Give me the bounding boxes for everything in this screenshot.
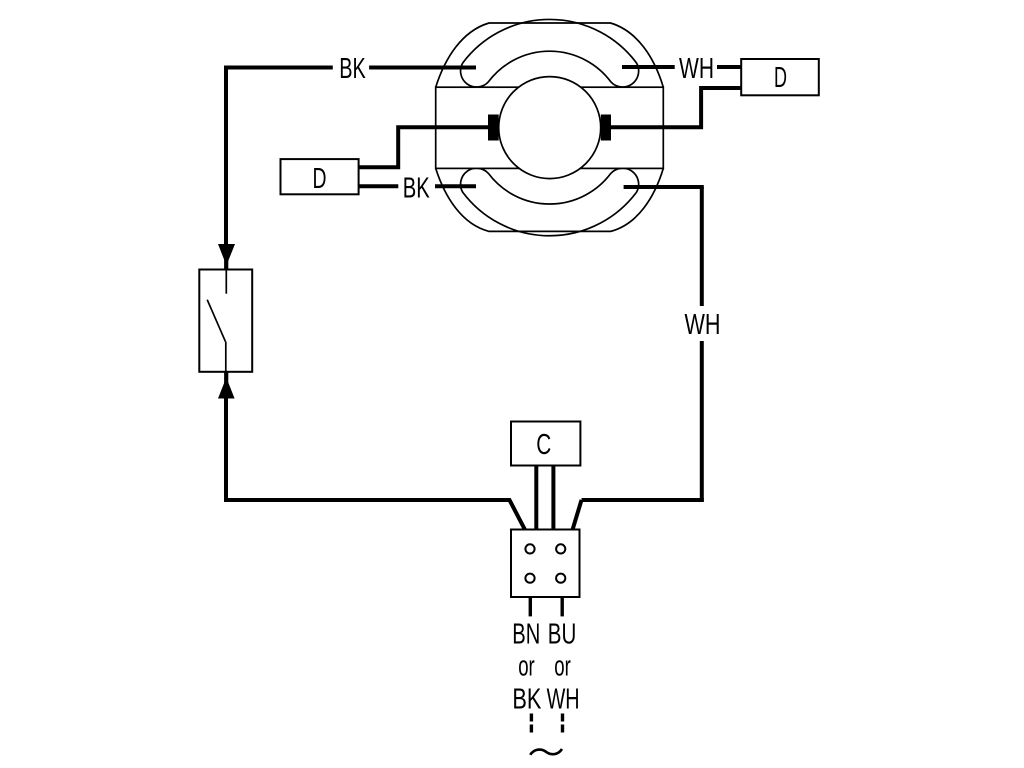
switch S1 box — [199, 270, 252, 372]
capacitor lead left — [534, 465, 538, 530]
arrow up out of switch — [218, 378, 235, 399]
wire bottom right horizontal to connector — [573, 500, 582, 530]
svg-text:or: or — [518, 651, 535, 683]
brush right (filled) — [601, 115, 611, 141]
motor M1 housing outline top — [436, 23, 664, 87]
dashed wire left — [530, 714, 533, 734]
wire bottom coil right to vertical — [624, 185, 704, 189]
supply wire stub right — [561, 597, 564, 616]
svg-text:or: or — [554, 651, 571, 683]
terminal block — [511, 530, 580, 598]
dashed wire right — [561, 714, 564, 734]
svg-text:BK: BK — [512, 683, 541, 715]
brush holder rectangle — [436, 87, 664, 168]
wire switch bottom to corner and to connector — [226, 396, 525, 530]
brush left (filled) — [488, 115, 499, 141]
armature circle — [499, 77, 601, 179]
connector D right box — [741, 59, 819, 95]
terminal hole 1 — [525, 544, 534, 553]
svg-text:BK: BK — [339, 53, 366, 85]
wire WH right vertical upper segment — [700, 187, 704, 306]
svg-text:WH: WH — [685, 309, 721, 341]
AC tilde symbol — [530, 749, 562, 755]
motor M1 housing outline bottom — [436, 168, 664, 231]
field coil winding bottom — [461, 168, 639, 236]
terminal hole 4 — [556, 574, 565, 583]
field coil winding top — [461, 19, 639, 87]
switch S1 blade — [207, 300, 225, 342]
wire bottom coil left BK segment 2 — [435, 184, 476, 188]
wire WH top segment 2 — [717, 65, 741, 69]
supply wire stub left — [529, 597, 532, 616]
wire left D box to brush riser — [358, 127, 488, 167]
wire WH top segment 1 — [622, 65, 675, 69]
arrow down into switch — [218, 244, 235, 266]
wire bottom coil left BK segment 1 — [358, 184, 398, 188]
svg-text:BN: BN — [512, 618, 540, 650]
svg-text:WH: WH — [679, 53, 714, 85]
capacitor lead right — [551, 465, 555, 530]
switch S1 lower contact stub — [225, 342, 227, 372]
wire WH right vertical lower segment — [700, 341, 704, 502]
terminal hole 3 — [525, 574, 534, 583]
svg-text:C: C — [536, 429, 551, 461]
svg-text:D: D — [774, 62, 787, 94]
connector D left box — [281, 159, 359, 194]
svg-text:WH: WH — [547, 683, 580, 715]
wire right brush to D box riser — [611, 88, 742, 127]
terminal hole 2 — [556, 544, 565, 553]
svg-text:BU: BU — [548, 618, 577, 650]
svg-text:D: D — [313, 163, 327, 195]
wire left vertical down to switch — [224, 66, 228, 246]
wire BK top-left horizontal segment 1 — [224, 66, 333, 70]
capacitor C box — [511, 422, 580, 466]
switch S1 upper contact stub — [225, 270, 227, 294]
svg-text:BK: BK — [403, 173, 430, 205]
wire BK top-left horizontal segment 2 to coil — [369, 66, 476, 70]
